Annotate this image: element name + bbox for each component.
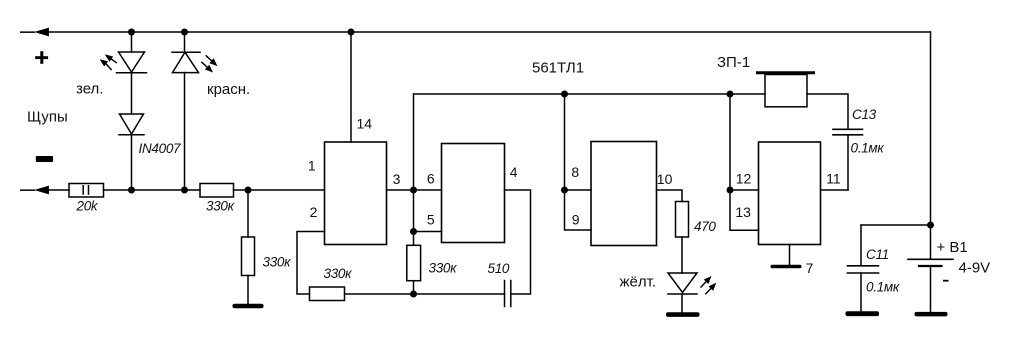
- label 330к (divider): [263, 255, 292, 270]
- LED red (красн.): [172, 52, 200, 190]
- svg-text:0.1мк: 0.1мк: [866, 280, 900, 295]
- label 330к feedback: [324, 266, 353, 281]
- pin 10 label: [657, 171, 673, 187]
- svg-text:470: 470: [694, 219, 716, 234]
- label 330к input: [206, 199, 235, 214]
- svg-text:2: 2: [310, 204, 318, 220]
- wire feedback resistor to node: [345, 293, 414, 295]
- node dot top rail / pin14: [348, 29, 355, 36]
- op IC U2 561ТЛ1 gate 2: [442, 144, 505, 243]
- node A vertical wire: [413, 94, 415, 245]
- svg-text:330к: 330к: [206, 199, 235, 214]
- LED yellow (жёлт.): [668, 273, 697, 313]
- svg-text:330к: 330к: [263, 255, 292, 270]
- pin 13 label: [735, 204, 751, 220]
- svg-text:5: 5: [427, 211, 435, 227]
- svg-text:510: 510: [488, 261, 510, 276]
- svg-text:561ТЛ1: 561ТЛ1: [532, 60, 584, 77]
- label + B1: [937, 239, 968, 256]
- probe - arrow: [20, 186, 49, 195]
- svg-text:4: 4: [510, 164, 518, 180]
- node dot pin12: [727, 187, 734, 194]
- pin 1 label: [308, 157, 316, 173]
- svg-text:IN4007: IN4007: [139, 141, 182, 156]
- svg-text:3: 3: [393, 171, 401, 187]
- battery B1 plates: [908, 259, 953, 266]
- LED red: cathode wire: [184, 32, 186, 52]
- pin 3 label: [393, 171, 401, 187]
- right rail wire: [930, 32, 932, 259]
- svg-text:12: 12: [736, 171, 752, 187]
- LED red emission arrows: [202, 56, 218, 73]
- wire 20k to node: [104, 189, 201, 191]
- diode IN4007: [119, 114, 144, 190]
- pin 14 label: [357, 115, 373, 131]
- pin 5 label: [427, 211, 435, 227]
- U4 input tap wires: [730, 94, 759, 230]
- U3 input tap wires: [565, 94, 592, 230]
- node dot top rail / red LED: [181, 29, 188, 36]
- pin 12 label: [736, 171, 752, 187]
- pin 2 label: [310, 204, 318, 220]
- node dot signal row / red chain: [181, 187, 188, 194]
- op IC U4 561ТЛ1 gate 4: [759, 142, 821, 245]
- ground (LED yellow): [666, 312, 700, 317]
- svg-text:4-9V: 4-9V: [959, 260, 991, 277]
- pin 3 wire to pin 6: [387, 189, 442, 191]
- node dot supply U3 tap: [561, 91, 568, 98]
- svg-text:0.1мк: 0.1мк: [851, 141, 885, 156]
- svg-text:11: 11: [826, 170, 841, 186]
- pin 8 label: [571, 164, 579, 180]
- wire buzzer to C13: [807, 94, 848, 129]
- pin 4 label: [510, 164, 518, 180]
- op IC U1 561ТЛ1 gate 1: [325, 142, 387, 245]
- minus terminal symbol: [36, 156, 53, 162]
- wire battery to ground: [930, 267, 932, 312]
- label 4-9V: [959, 260, 991, 277]
- label жёлт.: [620, 274, 657, 291]
- label 510: [488, 261, 510, 276]
- svg-text:10: 10: [657, 171, 673, 187]
- wire resistor to ground: [247, 276, 249, 305]
- LED yellow emission arrows: [701, 276, 716, 294]
- svg-text:Щупы: Щупы: [27, 109, 68, 126]
- wire C11 to ground: [860, 273, 862, 312]
- svg-text:8: 8: [571, 164, 579, 180]
- svg-text:9: 9: [572, 212, 580, 228]
- svg-text:красн.: красн.: [207, 81, 250, 98]
- wire battery tap to C11: [861, 224, 931, 226]
- node dot bottom RC: [410, 291, 417, 298]
- wire timing resistor to bottom node: [413, 281, 415, 294]
- probe + arrow: [20, 28, 49, 37]
- node dot supply U4 tap: [727, 91, 734, 98]
- pin 14 wire: [350, 32, 352, 142]
- pin 7 stub: [789, 245, 791, 266]
- buzzer ЗП-1: [758, 73, 814, 107]
- svg-text:зел.: зел.: [76, 81, 103, 98]
- label C13: [852, 107, 877, 122]
- resistor 330к feedback: [310, 287, 345, 301]
- svg-text:6: 6: [427, 170, 435, 186]
- pin 7 label: [806, 260, 814, 276]
- wire C13 to pin 11: [847, 135, 849, 190]
- wire top supply rail: [47, 31, 931, 33]
- svg-text:330к: 330к: [429, 261, 458, 276]
- label Щупы: [27, 109, 68, 126]
- label ЗП-1: [717, 54, 750, 71]
- op IC U3 561ТЛ1 gate 3: [591, 142, 657, 246]
- pin 6 label: [427, 170, 435, 186]
- svg-text:ЗП-1: ЗП-1: [717, 54, 750, 71]
- pin 11 label: [826, 170, 841, 186]
- plus terminal symbol: [35, 51, 48, 64]
- capacitor C11: [848, 266, 879, 273]
- wire divider down: [247, 190, 249, 237]
- svg-text:C13: C13: [852, 107, 877, 122]
- resistor 330к timing: [407, 245, 421, 280]
- label 0.1мк (C11): [866, 280, 900, 295]
- svg-text:20k: 20k: [76, 199, 99, 214]
- ground (C11): [846, 311, 880, 316]
- capacitor 510: [414, 281, 511, 307]
- pin 10 wire: [657, 190, 683, 202]
- resistor 330к input: [200, 184, 234, 198]
- resistor 470: [676, 202, 689, 238]
- wire 470 to LED: [681, 237, 683, 273]
- ground (pin 7): [771, 265, 802, 268]
- svg-text:7: 7: [806, 260, 814, 276]
- LED green (зел.): [117, 52, 147, 114]
- resistor 330к to ground: [242, 237, 255, 276]
- svg-text:жёлт.: жёлт.: [620, 274, 657, 291]
- label battery minus: [943, 280, 949, 282]
- pin 11 wire: [821, 189, 849, 191]
- pin 4 output wire: [505, 190, 531, 294]
- label C11: [866, 247, 889, 262]
- resistor 20k: [69, 184, 104, 198]
- label 0.1мк (C13): [851, 141, 885, 156]
- label 561ТЛ1: [532, 60, 584, 77]
- svg-text:1: 1: [308, 157, 316, 173]
- ground (divider): [233, 304, 264, 309]
- node dot top rail / green LED: [128, 29, 135, 36]
- pin 5 wire: [414, 231, 442, 233]
- node dot pin8: [561, 187, 568, 194]
- supply rail 561ТЛ1 line: [414, 93, 766, 95]
- node dot A signal: [410, 187, 417, 194]
- svg-text:330к: 330к: [324, 266, 353, 281]
- node dot A pin5: [410, 228, 417, 235]
- svg-text:14: 14: [357, 115, 373, 131]
- wire 330к to U1 pin1: [234, 189, 325, 191]
- label красн.: [207, 81, 250, 98]
- capacitor C13: [833, 129, 863, 135]
- node dot 330к divider: [245, 187, 252, 194]
- label IN4007: [139, 141, 182, 156]
- node dot battery tap: [927, 222, 934, 229]
- ground (battery): [915, 312, 948, 317]
- pin 2 feedback wire: [297, 232, 325, 295]
- pin 9 label: [572, 212, 580, 228]
- LED green emission arrows: [100, 54, 117, 69]
- svg-text:C11: C11: [866, 247, 889, 262]
- wire C11 top: [860, 225, 862, 266]
- svg-text:+ B1: + B1: [937, 239, 968, 256]
- LED green: anode wire: [131, 32, 133, 52]
- label зел.: [76, 81, 103, 98]
- label 330к timing: [429, 261, 458, 276]
- node dot signal row / green chain: [128, 187, 135, 194]
- wire probe- to 20k: [47, 189, 69, 191]
- svg-text:13: 13: [735, 204, 751, 220]
- label 20k: [76, 199, 99, 214]
- label 470: [694, 219, 716, 234]
